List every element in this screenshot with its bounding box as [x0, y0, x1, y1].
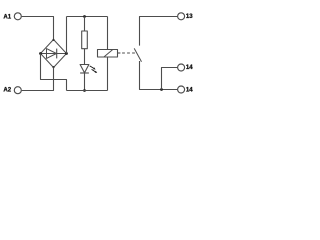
svg-text:13: 13	[186, 13, 193, 20]
resistor R1	[82, 31, 88, 49]
wire LED to bottom bus	[84, 73, 86, 91]
wire diamond left vertex down jog to bottom bus	[41, 54, 67, 91]
wire top bus down to resistor	[84, 17, 86, 32]
wire coil top to top bus	[107, 17, 109, 50]
wire bottom bus up to coil	[107, 57, 109, 91]
terminal A2	[3, 87, 21, 94]
svg-text:A1: A1	[3, 13, 11, 20]
diode D1 cathode bar	[56, 49, 58, 59]
node dot top bus resistor tap	[83, 15, 86, 18]
LED arrow 1	[90, 66, 96, 70]
relay coil K1	[98, 50, 118, 58]
node dot diamond left	[39, 52, 42, 55]
wire bottom bus	[67, 90, 108, 92]
node dot diamond right	[65, 52, 68, 55]
node dot bottom bus LED tap	[83, 89, 86, 92]
contact blade NO	[134, 48, 141, 61]
LED arrow 2	[92, 69, 98, 73]
node dot diamond bottom	[52, 66, 54, 68]
wire diamond right vertex up to top bus	[66, 17, 68, 54]
mechanical link dashes	[122, 52, 135, 54]
wire resistor to LED	[84, 49, 86, 65]
diode D1 triangle	[47, 49, 57, 59]
wire branch to upper 14	[162, 68, 178, 90]
terminal 14 upper	[178, 64, 194, 71]
svg-text:14: 14	[186, 64, 193, 71]
relay coil K1 diagonal	[104, 50, 113, 57]
wire A2 to diamond bottom	[22, 68, 54, 91]
terminal A1	[3, 13, 21, 21]
wire A1 to diamond top	[22, 17, 54, 40]
wire 13 to contact	[140, 17, 178, 46]
wire contact bottom	[140, 61, 178, 90]
terminal 14 lower	[178, 86, 194, 93]
svg-text:A2: A2	[3, 87, 11, 94]
terminal 13	[178, 13, 194, 20]
rectifier diamond D1	[41, 40, 67, 68]
LED cathode bar	[80, 72, 89, 74]
svg-text:14: 14	[186, 86, 193, 93]
LED triangle	[80, 65, 89, 73]
node dot 14 branch	[160, 88, 163, 91]
mechanical link stub	[118, 52, 121, 54]
node dot diamond top	[52, 39, 54, 41]
diode D1 horizontal line	[41, 53, 67, 55]
wire top bus	[67, 16, 108, 18]
